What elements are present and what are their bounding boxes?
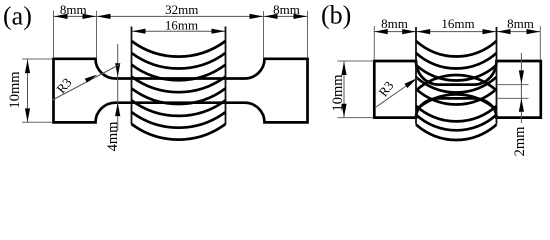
dimension line 4mm A: [117, 44, 119, 131]
arrow R3 A: [85, 75, 98, 83]
extension line B right: [539, 26, 541, 60]
arc stack B bottom: [416, 106, 497, 140]
arrow 10mm A up: [25, 60, 30, 74]
dimension line 8mm left B: [374, 31, 416, 33]
arrow 4mm A up: [115, 103, 120, 117]
arrow 32mm A left: [97, 14, 111, 19]
svg-text:8mm: 8mm: [507, 16, 534, 31]
dimension 2mm B extension bottom: [497, 97, 529, 99]
svg-text:8mm: 8mm: [273, 2, 300, 17]
leader R3 A: [53, 65, 120, 101]
arrow 8mm right A left: [264, 14, 278, 19]
arrow 8mm right B right: [527, 29, 541, 34]
svg-text:8mm: 8mm: [60, 2, 87, 17]
dimension 10mm A extension bottom: [22, 121, 53, 123]
arc stack B sagging: [416, 41, 497, 105]
arrow 8mm right B left: [497, 29, 511, 34]
dimension line 10mm A: [27, 59, 29, 122]
dimension line 16mm A: [132, 30, 226, 32]
dimension line 2mm B: [520, 53, 522, 123]
arrow 8mm right A right: [294, 14, 308, 19]
arc stack B rising: [416, 75, 497, 110]
dimension line 8mm right B: [497, 31, 541, 33]
arrow 8mm left B left: [374, 29, 388, 34]
svg-text:10mm: 10mm: [330, 74, 346, 112]
extension line A fillet corner: [96, 11, 98, 58]
arrow 10mm B down: [341, 104, 346, 118]
arrow 16mm B right: [483, 29, 497, 34]
arrow 8mm left A right: [83, 14, 97, 19]
arrow 16mm B left: [417, 29, 431, 34]
specimen B outline: [374, 61, 541, 118]
svg-text:16mm: 16mm: [165, 17, 198, 32]
extension line B left: [373, 26, 375, 60]
arrow 2mm B up: [519, 98, 524, 112]
leader R3 B: [376, 78, 419, 108]
svg-text:R3: R3: [53, 75, 74, 96]
arrow 4mm A down: [115, 63, 120, 77]
arrow 16mm A left: [132, 29, 146, 34]
svg-text:(a): (a): [3, 2, 32, 31]
extension line A right fillet corner: [263, 11, 265, 58]
dimension line 8mm left A: [54, 15, 97, 17]
specimen A outline: [54, 59, 308, 123]
arrow 8mm left B right: [402, 29, 416, 34]
arrow 8mm left A left: [54, 14, 68, 19]
arrow 10mm A down: [25, 108, 30, 122]
dimension 10mm A extension top: [22, 58, 53, 60]
svg-text:32mm: 32mm: [165, 2, 198, 17]
boundary line B right: [496, 27, 498, 124]
dimension line 8mm right A: [264, 15, 308, 17]
arrow 16mm A right: [212, 29, 226, 34]
boundary line A right: [225, 27, 227, 125]
dimension 10mm B extension top: [338, 60, 374, 62]
svg-text:(b): (b): [321, 1, 351, 30]
extension line A right: [307, 11, 309, 58]
svg-text:R3: R3: [375, 78, 396, 99]
boundary line A left: [131, 27, 133, 125]
svg-text:16mm: 16mm: [441, 16, 474, 31]
svg-text:2mm: 2mm: [512, 126, 528, 157]
dimension line 10mm B: [343, 61, 345, 117]
extension line A left: [53, 11, 55, 59]
svg-text:10mm: 10mm: [7, 71, 23, 109]
svg-text:4mm: 4mm: [105, 121, 121, 152]
dimension 10mm B extension bottom: [338, 117, 374, 119]
arc stack A: [132, 41, 226, 140]
dimension 2mm B extension top: [497, 84, 529, 86]
dimension line 16mm B: [416, 31, 497, 33]
arrow 10mm B up: [341, 62, 346, 76]
arrow R3 B: [404, 78, 417, 88]
dimension line 32mm A: [97, 15, 264, 17]
arrow 32mm A right: [250, 14, 264, 19]
boundary line B left: [415, 27, 417, 124]
svg-text:8mm: 8mm: [381, 16, 408, 31]
arrow 2mm B down: [519, 70, 524, 84]
